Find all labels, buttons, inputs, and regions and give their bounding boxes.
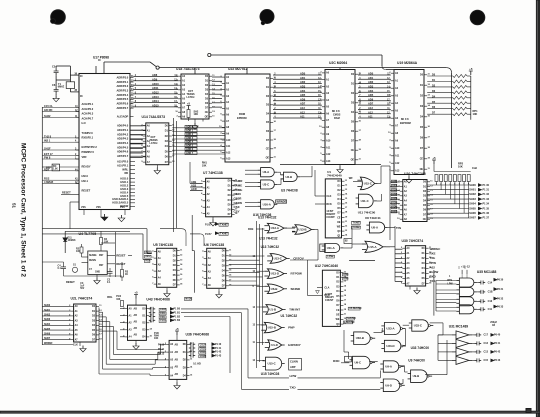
svg-text:D7: D7 [173,285,177,287]
svg-text:SH00: SH00 [469,183,476,187]
svg-text:D4: D4 [336,290,340,293]
svg-text:RESET: RESET [116,262,125,266]
svg-text:LATCH: LATCH [150,142,158,145]
svg-text:A0: A0 [170,343,174,346]
svg-text:READY: READY [82,164,91,168]
svg-text:D2: D2 [420,96,424,98]
svg-text:D1: D1 [222,256,226,258]
svg-text:14: 14 [180,263,183,266]
svg-text:D4: D4 [338,198,342,201]
svg-text:TXNET: TXNET [352,225,361,229]
transistor U11-A (AND gate) [320,244,344,253]
svg-text:D0: D0 [92,306,96,308]
resistor R2 [76,244,88,257]
svg-text:AD12: AD12 [152,91,159,95]
svg-text:R4: R4 [104,238,108,241]
svg-text:LPW: LPW [290,374,297,378]
svg-text:17: 17 [344,299,347,301]
svg-text:CE: CE [351,150,355,152]
IC U43 74HC4066 [123,305,152,340]
svg-text:D7: D7 [205,108,209,110]
svg-text:CE: CE [337,217,341,219]
RN label [154,333,160,340]
svg-text:U36 74HC4066: U36 74HC4066 [186,333,210,337]
svg-text:D6: D6 [351,131,355,133]
svg-text:D5: D5 [222,276,226,278]
svg-text:D0: D0 [183,344,187,346]
svg-text:ADR/P3.2: ADR/P3.2 [117,84,129,88]
svg-text:A6: A6 [326,112,330,115]
svg-text:U3-A: U3-A [263,170,270,174]
crystal Y1 [58,82,75,89]
U9 label [408,359,425,363]
IC U30 label [402,239,424,243]
svg-text:AD8: AD8 [152,73,158,77]
svg-text:U22 M27512: U22 M27512 [228,67,248,71]
svg-text:A1: A1 [326,79,330,82]
svg-text:CE: CE [336,310,340,312]
svg-text:11: 11 [99,305,102,307]
svg-text:U15-A: U15-A [368,245,376,249]
svg-text:15: 15 [229,270,232,272]
svg-text:AB 2: AB 2 [145,255,151,258]
svg-text:AB: AB [134,308,138,311]
svg-text:15: 15 [344,290,347,292]
svg-text:D3: D3 [420,106,424,108]
IC U12 74HC4040 [317,270,347,326]
svg-text:D2: D2 [266,96,270,98]
svg-text:16: 16 [428,126,431,128]
svg-text:P1 33: P1 33 [483,198,490,201]
svg-text:A7: A7 [326,119,330,122]
U30 right labels [430,247,441,283]
svg-text:P6 41: P6 41 [494,342,501,345]
svg-text:A13: A13 [395,170,400,173]
wire control run [280,164,381,166]
power +5 RP1 [469,67,473,75]
svg-text:C01B: C01B [160,309,166,311]
svg-text:14: 14 [99,318,102,321]
svg-text:RCK: RCK [324,294,330,297]
svg-text:A5: A5 [406,272,410,275]
capacitors C14 C1B C13 C11 [477,279,504,312]
transistor U15-C (OR gate) [357,177,377,190]
IC U18 label [176,67,200,71]
svg-text:D1: D1 [338,186,342,188]
svg-text:P1 43: P1 43 [215,354,222,357]
U15-B output label PNP [288,326,294,330]
wire xtal to U17 XTAL1 [56,66,79,82]
wire U17 left input stubs with labels [42,104,79,184]
IC U14 label [142,115,166,119]
svg-text:A5: A5 [158,283,162,286]
svg-text:14: 14 [150,328,153,331]
svg-text:15: 15 [180,269,183,271]
svg-text:RCK: RCK [326,203,332,206]
U12 CLK pin [290,260,330,297]
wire above U12 [349,260,375,262]
svg-text:13: 13 [344,281,347,283]
svg-text:SH02: SH02 [469,192,476,196]
svg-text:A12: A12 [226,151,231,154]
svg-text:A4: A4 [170,374,174,377]
wire reset bottom [42,262,122,276]
svg-text:D4: D4 [351,111,355,114]
svg-text:P1 31: P1 31 [483,189,490,192]
svg-text:16: 16 [180,274,183,276]
svg-text:COUNT: COUNT [325,300,334,302]
svg-text:A3: A3 [75,319,79,322]
svg-text:RNG: RNG [343,274,348,276]
svg-text:P6 40: P6 40 [494,334,501,337]
svg-text:A1: A1 [406,252,410,255]
svg-text:ADR 7: ADR 7 [186,152,194,155]
svg-text:+5: +5 [175,327,179,331]
svg-text:OCT: OCT [188,91,194,93]
svg-text:D6: D6 [420,138,424,140]
svg-text:P6 42: P6 42 [494,351,501,354]
svg-text:ADR/P3.6: ADR/P3.6 [117,102,129,106]
svg-text:A0: A0 [158,250,162,253]
svg-text:D5: D5 [338,204,342,206]
U30 clk + ground [410,286,420,294]
RESET label bottom [66,280,75,284]
svg-text:U15-B: U15-B [268,326,276,330]
IC U43 label [146,298,170,302]
svg-text:D6: D6 [336,300,340,302]
transistor U1-B (OR gate) [263,305,286,315]
svg-text:C01B: C01B [200,356,206,358]
wire RESET to U17 [61,190,79,194]
svg-text:14: 14 [229,264,232,267]
svg-text:D1: D1 [228,185,232,187]
svg-text:ADR/P3.7: ADR/P3.7 [117,106,129,110]
svg-text:P1 35: P1 35 [483,207,490,210]
svg-text:A15.PR.1: A15.PR.1 [117,163,129,167]
svg-text:P1 37: P1 37 [483,217,490,220]
svg-text:A1: A1 [182,80,186,83]
svg-text:U11-C: U11-C [361,199,369,203]
svg-text:U3 74HC08: U3 74HC08 [281,189,298,193]
svg-text:U9-A: U9-A [385,365,392,369]
svg-text:P1 B0: P1 B0 [174,309,181,311]
svg-text:U9-C: U9-C [355,361,362,365]
svg-text:A4: A4 [208,277,212,280]
svg-text:11: 11 [428,168,431,170]
resistor RC 1.5K [42,164,79,171]
svg-text:D2: D2 [351,93,355,95]
svg-text:ADR 5: ADR 5 [186,144,194,147]
svg-text:RST: RST [99,265,104,267]
svg-text:U3-B: U3-B [286,175,293,179]
svg-text:D7: D7 [266,140,270,142]
svg-text:CLK: CLK [73,345,78,347]
svg-text:15: 15 [150,336,153,338]
svg-text:U9-D: U9-D [385,383,392,387]
transistor U13-D (OR gate) [264,269,287,279]
svg-text:D3: D3 [336,286,340,288]
wire RXE [248,227,295,231]
svg-text:A13: A13 [300,106,305,110]
U8 74HC11 label [365,216,381,220]
svg-text:A2: A2 [182,84,186,87]
wire U15-A to U30 bus [386,246,395,248]
IC U18 74ALS573 [175,74,215,119]
svg-text:SH00: SH00 [44,304,51,307]
transistor U11-C (AND gate) [356,194,377,208]
svg-text:A12: A12 [326,153,331,156]
svg-text:4: 4 [202,263,204,266]
svg-text:15: 15 [99,324,102,326]
svg-text:16: 16 [359,121,362,123]
svg-text:D1: D1 [205,81,209,83]
U12 output boxed labels [343,307,361,324]
svg-text:D7: D7 [338,213,342,215]
IC U6 label [204,243,224,247]
svg-text:CE: CE [205,112,209,114]
wire rail drop to U22 [246,68,248,74]
svg-text:+5: +5 [134,291,138,295]
svg-text:A7: A7 [395,125,399,128]
svg-text:ARP: ARP [290,365,296,369]
transistor U15-B (OR gate) [261,322,284,333]
svg-text:AD3: AD3 [368,85,374,89]
svg-text:RXE: RXE [430,252,436,256]
svg-text:A5: A5 [395,110,399,113]
svg-text:ADR/P3.3: ADR/P3.3 [117,89,129,93]
svg-text:A5: A5 [326,106,330,109]
svg-text:16: 16 [344,295,347,297]
wire U7 output labels [234,179,244,214]
svg-text:D3: D3 [165,141,169,143]
svg-text:BINARY: BINARY [326,213,335,216]
wire xtal to U17 XTAL2 [56,75,79,92]
svg-text:19: 19 [274,148,277,150]
svg-text:LATCH: LATCH [187,96,195,99]
svg-text:A2: A2 [170,359,174,362]
IC U23 74HC374 [69,304,102,342]
svg-text:16: 16 [274,121,277,123]
svg-text:D5: D5 [420,127,424,129]
sidebar title [20,143,26,278]
svg-text:11: 11 [229,250,232,252]
svg-text:D4: D4 [266,112,270,115]
IC U36 74HC4066 [165,340,193,379]
U16-A output label [276,200,287,204]
U16 label [253,213,272,217]
svg-text:10K: 10K [116,299,121,301]
wire bus into U30 [395,226,402,282]
svg-text:D0: D0 [420,75,424,77]
svg-text:0.1 HD: 0.1 HD [193,363,201,366]
svg-text:AD1: AD1 [368,76,374,80]
capacitor C6 [52,83,59,94]
wire bus A8-A15 (U18 to U22) [212,77,222,107]
svg-text:4: 4 [201,192,203,195]
transistor U33-D (NAND gate) [381,340,406,351]
wire U9 interconnect [369,340,447,384]
svg-text:D6: D6 [423,210,427,212]
svg-text:U13 74HC32: U13 74HC32 [259,237,278,241]
svg-text:WRREF: WRREF [44,343,53,345]
svg-text:AB: AB [175,358,179,361]
svg-text:13: 13 [428,95,431,97]
transistor U9-D (NAND gate) [380,379,405,392]
svg-text:50V: 50V [80,288,84,290]
U13 label a [258,216,277,220]
svg-text:A1: A1 [158,257,162,260]
svg-text:A6: A6 [75,334,79,337]
resistor network RP1 [427,74,471,120]
svg-text:D3: D3 [142,330,146,332]
svg-text:11: 11 [430,181,433,183]
svg-text:14: 14 [345,193,348,196]
svg-text:10K: 10K [154,338,159,340]
svg-text:D6: D6 [338,208,342,210]
svg-text:D3: D3 [92,320,96,322]
transistor U13-B (OR gate) [292,225,315,235]
svg-text:ACH/P0.1: ACH/P0.1 [82,102,94,106]
svg-text:CS0R: CS0R [234,197,243,201]
node A (rail junction circle) [156,66,159,69]
resistor network RP2 grid [427,172,490,220]
svg-text:A4: A4 [207,206,211,209]
svg-text:AB: AB [134,327,138,330]
svg-text:10K: 10K [194,113,199,116]
TXNET box 4 [351,225,361,229]
svg-text:D5: D5 [422,273,426,275]
svg-text:A4: A4 [406,267,410,270]
svg-text:A11: A11 [368,115,373,119]
svg-text:A0: A0 [226,76,230,79]
svg-text:AD0: AD0 [392,180,397,183]
svg-text:P6.11: P6.11 [158,349,165,351]
svg-text:GR RD: GR RD [44,108,52,112]
svg-text:U5 74HC138: U5 74HC138 [153,243,173,247]
svg-text:RESET: RESET [82,188,91,192]
IC U5 label [153,243,173,247]
transistor U9-A (NAND gate) [380,361,404,372]
NXDE box [184,298,192,301]
svg-text:OE: OE [266,157,270,159]
svg-text:12: 12 [345,185,348,187]
U43 output caps [149,307,181,323]
svg-text:LPW: LPW [447,284,453,286]
svg-text:AD1/P4.1: AD1/P4.1 [117,128,129,132]
svg-text:U43 74HC4066: U43 74HC4066 [146,298,170,302]
IC U36 inner [175,344,179,377]
svg-text:D5: D5 [173,275,177,277]
svg-text:A1: A1 [207,187,211,190]
wire U15-C output up [378,166,390,183]
svg-text:AD13: AD13 [152,95,159,99]
svg-text:OE: OE [336,315,340,317]
svg-text:U1-D: U1-D [271,343,278,347]
svg-text:P1 B1: P1 B1 [174,313,181,315]
svg-text:A6: A6 [404,209,408,212]
ground xtal [53,94,59,102]
svg-text:D6: D6 [422,278,426,280]
wire U13-B out [307,230,318,261]
svg-text:AD4: AD4 [300,89,306,93]
svg-text:HSO.4: HSO.4 [120,190,128,194]
svg-text:A11: A11 [226,145,231,148]
svg-text:A3: A3 [395,95,399,98]
svg-text:ACH/P0.7: ACH/P0.7 [82,116,94,120]
svg-text:D5: D5 [423,205,427,207]
svg-text:D2: D2 [165,136,169,138]
svg-text:A02: A02 [430,265,436,269]
U31 label [449,324,469,328]
svg-text:D3: D3 [205,90,209,92]
svg-text:D5: D5 [351,122,355,124]
svg-text:OE: OE [205,117,209,119]
svg-text:A3: A3 [207,200,211,203]
IC U14 inner text [150,137,159,145]
LPW input [290,371,381,379]
U33 label [411,346,430,350]
wire gate column bus [253,221,265,368]
svg-text:A8: A8 [395,132,399,135]
svg-text:A0: A0 [406,247,410,250]
svg-text:P1 36: P1 36 [483,212,490,215]
svg-text:A7: A7 [182,107,186,110]
svg-text:SH07: SH07 [44,337,51,340]
svg-text:ROM: ROM [239,112,245,116]
svg-text:A0: A0 [129,307,133,310]
svg-text:A5: A5 [75,329,79,332]
svg-text:AD10: AD10 [152,82,159,86]
svg-text:18: 18 [180,284,183,286]
svg-text:15: 15 [345,198,348,200]
svg-text:38: 38 [80,96,83,98]
svg-text:ACR: ACR [191,187,197,191]
svg-text:8K X 8: 8K X 8 [401,118,409,121]
svg-text:SH42: SH42 [44,114,51,118]
svg-text:0.1: 0.1 [58,268,62,270]
svg-text:12: 12 [99,310,102,312]
svg-text:SH01: SH01 [44,309,51,312]
svg-text:P6 43: P6 43 [494,359,501,362]
svg-text:SH06: SH06 [44,333,51,336]
svg-text:D0: D0 [173,251,177,253]
svg-text:RXD: RXD [430,275,436,279]
svg-text:D3: D3 [183,368,187,370]
svg-text:17: 17 [430,209,433,211]
svg-text:82: 82 [345,241,348,243]
svg-text:AD3: AD3 [300,85,306,89]
svg-text:10K: 10K [202,164,207,167]
wire fan U23 to U36 [99,308,166,376]
svg-text:12: 12 [428,84,431,86]
svg-text:COUNT: COUNT [326,217,335,219]
IC U19 inner text [400,118,411,125]
svg-text:D1: D1 [336,277,340,279]
svg-text:4: 4 [123,321,125,324]
svg-text:D2: D2 [183,360,187,362]
svg-text:+5: +5 [187,102,191,106]
svg-text:TIM INT: TIM INT [289,308,300,312]
svg-text:D0: D0 [228,181,232,183]
IC U6 74HC138 [202,248,232,288]
U1 CLK RCK pins [315,170,332,206]
svg-text:19: 19 [212,111,215,113]
svg-text:WF: WF [349,176,353,180]
svg-text:A10: A10 [226,139,231,142]
svg-text:A1: A1 [404,185,408,188]
svg-text:HSI.1: HSI.1 [82,179,89,183]
svg-text:RESIN: RESIN [89,260,96,262]
